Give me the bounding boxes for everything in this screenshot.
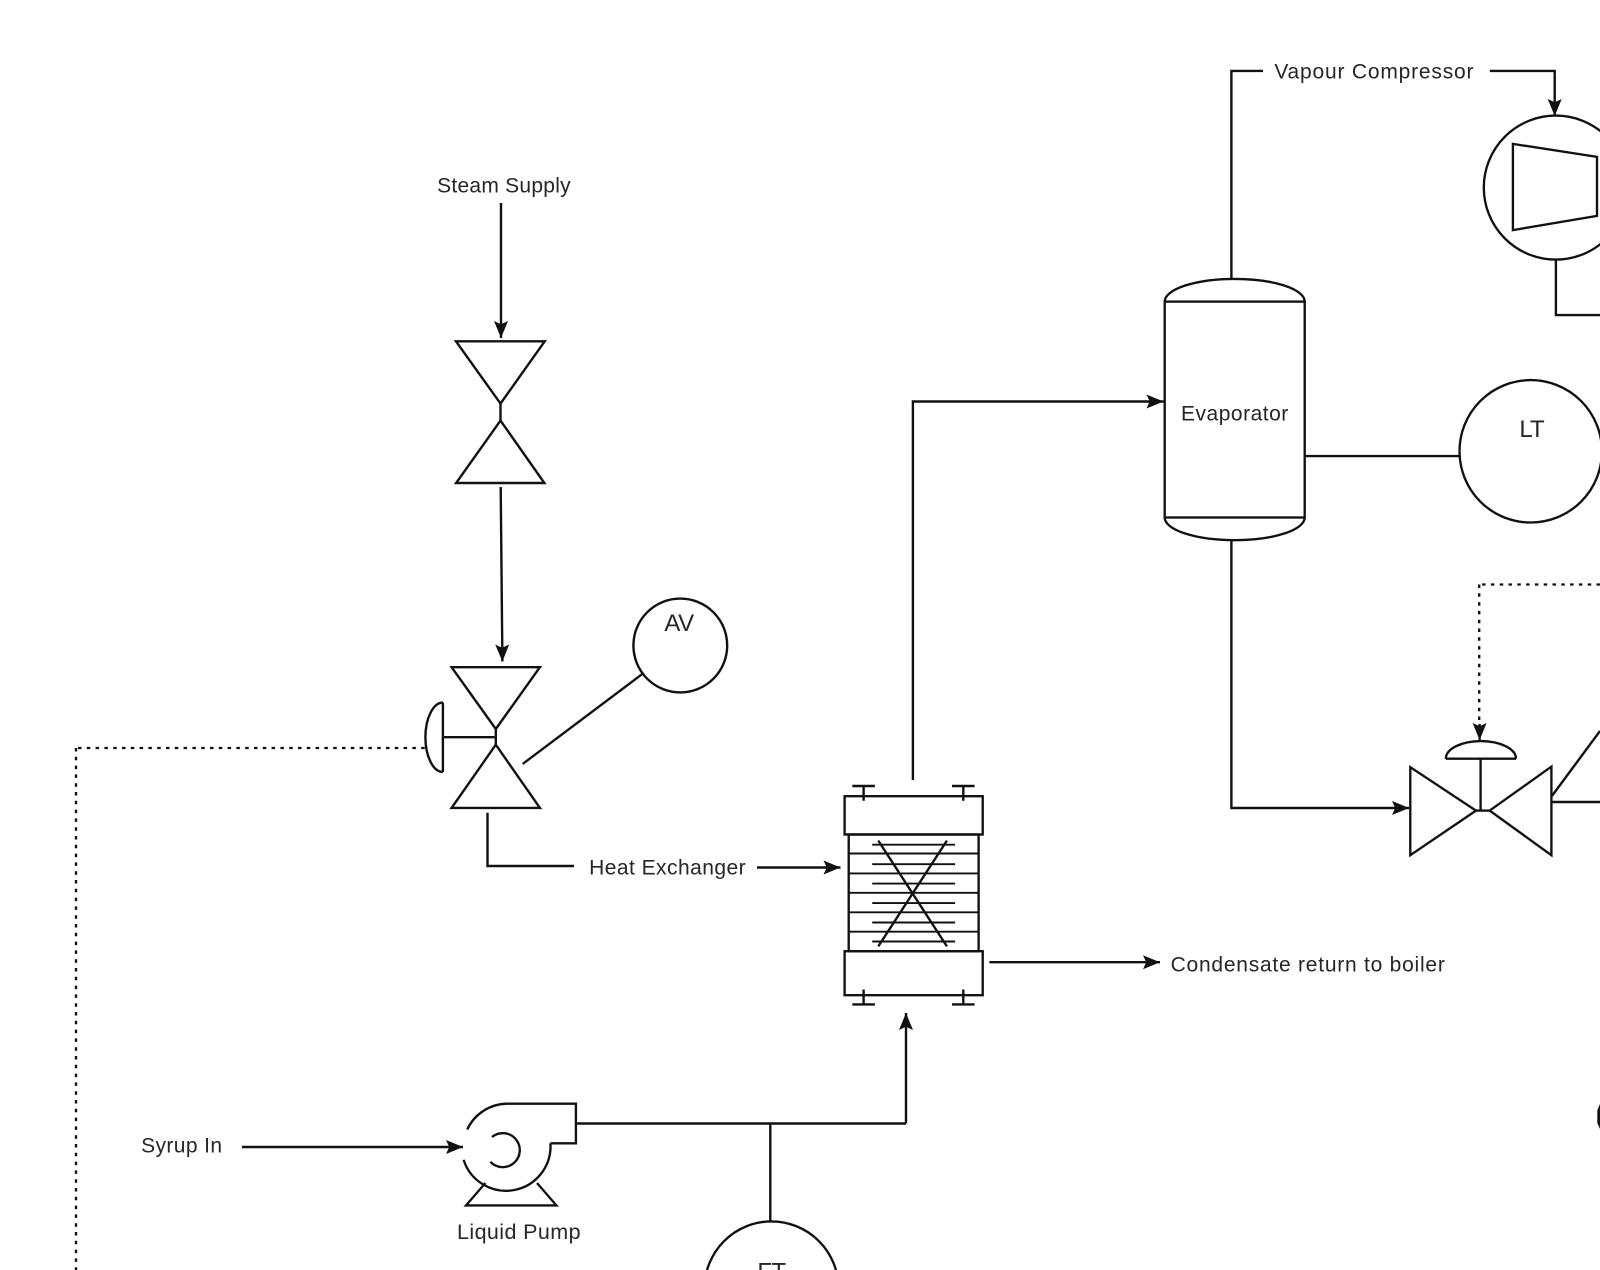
wire evaporator to LT [1305,455,1460,457]
svg-text:Vapour Compressor: Vapour Compressor [1274,61,1474,84]
heat exchanger HX body [845,796,983,995]
wire evaporator bottom to control valve (with arrowhead) [1231,540,1409,808]
wire control valve outlet to right edge [1552,801,1600,804]
heat exchanger nozzle lugs [852,786,974,1004]
pump casing [467,1104,576,1144]
wire diagonal from control valve up right edge [1552,731,1600,796]
wire steam supply down to valve V1 (with arrowhead) [500,203,502,338]
svg-text:Evaporator: Evaporator [1181,403,1289,426]
control valve CV (horizontal bowtie) [1410,767,1551,856]
wire Heat Exchanger label arrow into exchanger (with arrowhead) [757,866,841,868]
wire HX condensate outlet [989,961,1160,963]
wire compressor discharge to right edge [1556,260,1600,316]
clipped arrowhead at right edge [1597,1104,1600,1129]
compressor circle [1484,116,1600,260]
evaporator vessel [1165,279,1305,540]
wire pump discharge to HX feed (with arrowhead) [576,1029,906,1124]
wire valve V2 bottom to Heat Exchanger label [488,813,575,866]
svg-text:Liquid Pump: Liquid Pump [457,1220,581,1244]
dotted control signal to control valve (with arrowhead) [1479,583,1600,585]
wire diagonal from valve V2 to instrument AV [523,674,643,764]
svg-text:AV: AV [664,610,694,637]
dotted control signal line to V2 actuator [76,748,425,1270]
wire V1 to valve V2 (with arrowhead) [501,487,503,662]
pump impeller [490,1133,519,1167]
wire HX vapour out up and right into Evaporator (with arrowhead) [913,402,1164,781]
svg-text:Syrup In: Syrup In [141,1135,222,1158]
instrument circle LT [1460,380,1600,522]
wire Vapour Compressor label to compressor (with arrowhead) [1490,71,1555,116]
control valve diaphragm actuator dome [1446,741,1516,811]
svg-text:FT: FT [757,1258,786,1270]
actuator of valve V2 (half-disc diaphragm) [425,703,494,772]
valve V2 (steam control valve, vertical bowtie) [452,667,540,808]
instrument circle AV [633,599,727,693]
compressor trapezoid blade [1513,144,1597,230]
svg-text:LT: LT [1519,416,1545,443]
wire evaporator top to Vapour Compressor label [1231,71,1263,279]
heat exchanger tube lines [849,845,979,942]
pump base [466,1183,556,1205]
heat exchanger cross lines [878,841,947,947]
wire branch down to FT [769,1124,771,1222]
instrument circle FT (clipped at bottom) [705,1221,839,1270]
svg-text:Steam Supply: Steam Supply [437,175,571,198]
svg-text:Condensate return to boiler: Condensate return to boiler [1171,954,1446,977]
svg-text:Heat Exchanger: Heat Exchanger [589,857,746,880]
valve V1 (manual steam valve, vertical bowtie) [456,341,545,483]
liquid pump P1 (centrifugal) [464,1104,576,1206]
wire Syrup In arrow to pump (with arrowhead) [242,1146,463,1148]
